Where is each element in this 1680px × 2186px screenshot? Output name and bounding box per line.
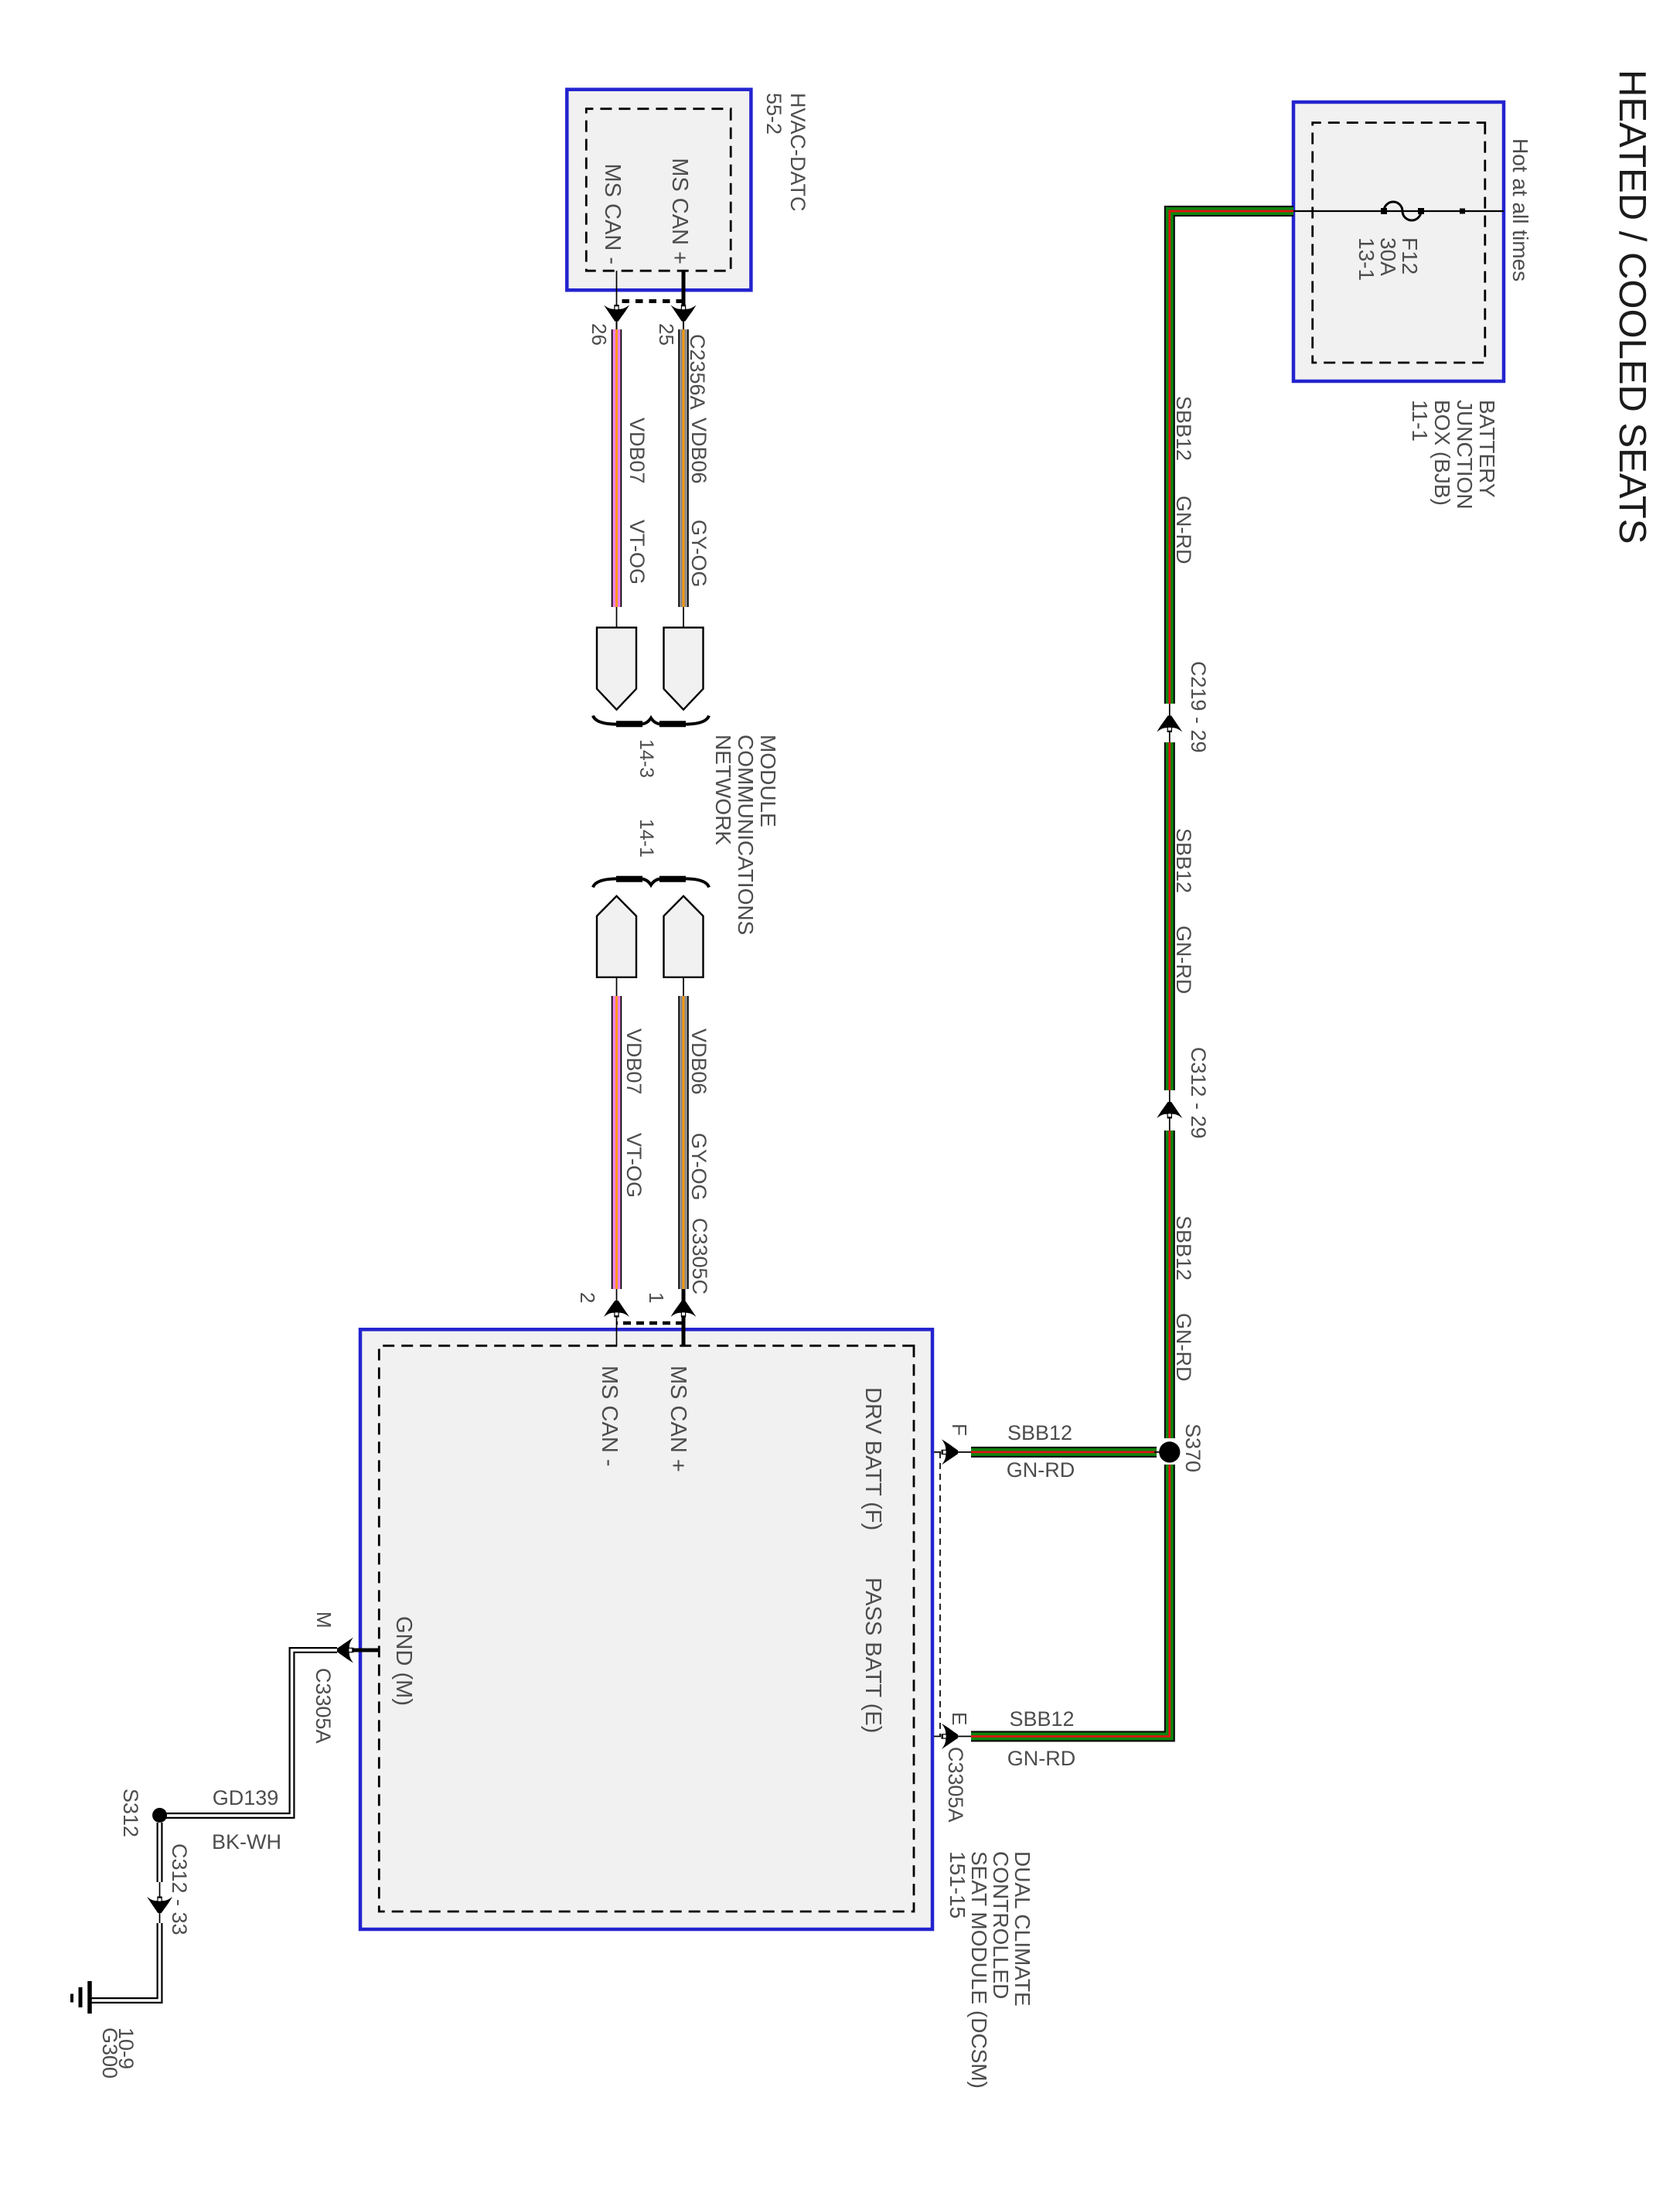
svg-text:C312 - 29: C312 - 29	[1187, 1047, 1210, 1139]
off-page connector VDB06 right	[664, 628, 704, 710]
label C3305C	[688, 1218, 711, 1294]
svg-text:M: M	[312, 1611, 336, 1628]
wire pin 1 stub DCSM	[682, 1317, 686, 1345]
label C3305A at pin M	[312, 1668, 335, 1744]
svg-text:VDB06: VDB06	[687, 418, 711, 484]
label MODULE COMMUNICATIONS NETWORK	[711, 735, 780, 935]
wire VDB06 GY-OG segment 2	[683, 977, 684, 1302]
wire thin link at connector C219	[1169, 704, 1171, 742]
connector C312 - 33 arrow	[147, 1897, 172, 1914]
label GD139	[213, 1786, 279, 1809]
wire VDB06 GY-OG segment 1	[678, 329, 689, 628]
label 14-1	[636, 819, 657, 858]
svg-text:F: F	[948, 1424, 971, 1436]
svg-text:C3305C: C3305C	[688, 1218, 711, 1294]
label Hot at all times	[1508, 138, 1532, 281]
module DCSM outline	[360, 1329, 932, 1929]
fuse F12 30A element	[1381, 202, 1424, 220]
svg-text:COMMUNICATIONS: COMMUNICATIONS	[734, 735, 758, 935]
svg-text:S370: S370	[1181, 1424, 1205, 1472]
connector C312 inline arrow	[1157, 1102, 1182, 1119]
svg-text:GN-RD: GN-RD	[1007, 1747, 1076, 1770]
label SBB12 segment 1	[1172, 396, 1195, 461]
pin 1 arrow DCSM	[671, 1301, 697, 1318]
svg-text:S312: S312	[119, 1789, 142, 1837]
pin 26 arrow	[604, 305, 629, 331]
svg-text:MS CAN -: MS CAN -	[600, 164, 625, 265]
label GN-RD segment 3	[1172, 1313, 1195, 1382]
label C312 - 29	[1187, 1047, 1210, 1139]
wire pin 25 stub HVAC	[682, 271, 686, 305]
svg-text:BK-WH: BK-WH	[212, 1830, 281, 1853]
label C219 - 29	[1187, 661, 1210, 753]
svg-text:GND (M): GND (M)	[391, 1616, 416, 1706]
wire BK-WH from C312 to G300	[91, 1923, 160, 2000]
pin 2 arrow DCSM	[604, 1301, 629, 1318]
svg-text:30A: 30A	[1376, 237, 1400, 276]
label C312 - 33	[168, 1843, 191, 1935]
svg-text:C3305A: C3305A	[944, 1747, 967, 1823]
title HEATED / COOLED SEATS	[1611, 70, 1653, 544]
pin 25 number	[655, 323, 678, 346]
pin F arrow into DCSM	[942, 1439, 959, 1465]
splice S370	[1154, 1441, 1180, 1462]
off-page connector VDB07 left	[597, 896, 636, 977]
label VDB07 segment 1	[625, 418, 649, 484]
svg-text:C2356A: C2356A	[686, 334, 709, 410]
label GY-OG segment 1	[687, 520, 711, 588]
brace left of network gap	[593, 716, 709, 725]
connector C3305A dashed span F to E	[939, 1452, 941, 1737]
svg-text:25: 25	[655, 323, 678, 346]
svg-text:2: 2	[576, 1292, 599, 1303]
connector C3305C dashed bracket	[617, 1321, 684, 1325]
label SBB12 segment 2	[1172, 828, 1195, 893]
wire pin 2 stub DCSM	[616, 1317, 618, 1345]
wire pin F stub link	[914, 1451, 971, 1453]
connector C2356A dashed bracket	[617, 299, 684, 303]
svg-text:CONTROLLED: CONTROLLED	[989, 1851, 1013, 1999]
battery junction box BJB outline	[1293, 102, 1504, 381]
brace right of network gap	[593, 878, 709, 887]
svg-text:SBB12: SBB12	[1172, 828, 1195, 893]
label F12 30A 13-1	[1355, 237, 1422, 281]
ground G300 symbol	[72, 1981, 90, 2014]
wire thin link at connector C312	[1169, 1090, 1171, 1131]
label VDB06 segment 2	[687, 1028, 711, 1095]
label GN-RD segment 2	[1172, 926, 1195, 994]
wire fuse feed line inside BJB	[1293, 210, 1504, 212]
wire GD139 BK-WH from M to S312	[160, 1650, 338, 1816]
svg-text:1: 1	[645, 1292, 668, 1303]
pin 1 number	[645, 1292, 668, 1303]
label BATTERY JUNCTION BOX (BJB) 11-1	[1408, 400, 1499, 510]
label MS CAN - inside HVAC	[600, 164, 625, 265]
wire pin E stub link	[914, 1736, 971, 1738]
svg-text:GN-RD: GN-RD	[1172, 1313, 1195, 1382]
svg-text:F12: F12	[1398, 237, 1422, 275]
pin 25 arrow	[671, 305, 697, 331]
HVAC-DATC inner dashed boundary	[586, 109, 731, 271]
off-page connector VDB07 right	[597, 628, 636, 710]
pin E letter	[948, 1712, 971, 1725]
svg-text:MS CAN -: MS CAN -	[597, 1366, 622, 1467]
label VT-OG segment 2	[622, 1133, 646, 1198]
svg-text:11-1: 11-1	[1408, 400, 1432, 442]
wire pin 26 stub HVAC	[616, 271, 618, 305]
svg-text:DRV BATT (F): DRV BATT (F)	[860, 1387, 885, 1530]
pin E arrow into DCSM	[942, 1724, 959, 1749]
svg-text:BATTERY: BATTERY	[1475, 400, 1499, 498]
label HVAC-DATC 55-2	[762, 93, 809, 212]
HVAC-DATC box outline	[567, 90, 751, 291]
svg-text:PASS BATT (E): PASS BATT (E)	[860, 1577, 885, 1733]
svg-text:C3305A: C3305A	[312, 1668, 335, 1744]
label SBB12 on E drop	[1009, 1707, 1074, 1731]
svg-text:14-3: 14-3	[636, 739, 657, 778]
label C3305A at pin E	[944, 1747, 967, 1823]
svg-text:26: 26	[588, 323, 611, 346]
svg-text:BOX (BJB): BOX (BJB)	[1430, 400, 1454, 506]
svg-text:Hot at all times: Hot at all times	[1508, 138, 1532, 281]
off-page connector VDB06 left	[664, 896, 704, 977]
label VDB06 segment 1	[687, 418, 711, 484]
wire SBB12 GN-RD main run from BJB	[971, 211, 1293, 1737]
svg-text:DUAL CLIMATE: DUAL CLIMATE	[1010, 1851, 1034, 2007]
pin 26 number	[588, 323, 611, 346]
svg-text:VDB06: VDB06	[687, 1028, 711, 1095]
node bus junction square in BJB	[1460, 209, 1465, 214]
wire pin M stub DCSM	[352, 1649, 379, 1652]
label GN-RD segment 1	[1172, 496, 1195, 564]
label MS CAN + inside DCSM	[666, 1366, 690, 1472]
svg-text:NETWORK: NETWORK	[711, 735, 735, 845]
svg-text:GN-RD: GN-RD	[1007, 1458, 1075, 1482]
svg-text:SBB12: SBB12	[1172, 1216, 1195, 1281]
label SBB12 segment 3	[1172, 1216, 1195, 1281]
svg-text:C219 - 29: C219 - 29	[1187, 661, 1210, 753]
svg-text:GY-OG: GY-OG	[687, 520, 711, 588]
svg-text:C312 - 33: C312 - 33	[168, 1843, 191, 1935]
svg-text:13-1: 13-1	[1355, 237, 1378, 281]
label BK-WH	[212, 1830, 281, 1853]
label GN-RD on F drop	[1007, 1458, 1075, 1482]
svg-text:JUNCTION: JUNCTION	[1453, 400, 1477, 510]
label S370	[1181, 1424, 1205, 1472]
svg-text:VDB07: VDB07	[622, 1028, 646, 1095]
label VT-OG segment 1	[625, 520, 649, 585]
label GND (M) inside DCSM	[391, 1616, 416, 1706]
pin M letter	[312, 1611, 336, 1628]
svg-text:GD139: GD139	[213, 1786, 279, 1809]
svg-text:GN-RD: GN-RD	[1172, 926, 1195, 994]
label DRV BATT (F)	[860, 1387, 885, 1530]
label G300 10-9	[98, 2027, 138, 2079]
svg-text:MS CAN +: MS CAN +	[667, 158, 692, 264]
svg-text:VDB07: VDB07	[625, 418, 649, 484]
label GN-RD on E drop	[1007, 1747, 1076, 1770]
svg-text:55-2: 55-2	[762, 93, 785, 135]
wire thin link at connector C312-33	[159, 1882, 161, 1923]
svg-text:GN-RD: GN-RD	[1172, 496, 1195, 564]
label PASS BATT (E)	[860, 1577, 885, 1733]
splice S312	[152, 1808, 167, 1823]
svg-text:HEATED / COOLED SEATS: HEATED / COOLED SEATS	[1611, 70, 1653, 544]
pin M arrow out of DCSM	[337, 1638, 354, 1663]
svg-text:151-15: 151-15	[946, 1851, 969, 1918]
pin F letter	[948, 1424, 971, 1436]
label S312	[119, 1789, 142, 1837]
module DCSM inner dashed boundary	[379, 1345, 914, 1911]
svg-text:SBB12: SBB12	[1172, 396, 1195, 461]
label VDB07 segment 2	[622, 1028, 646, 1095]
svg-text:SEAT MODULE (DCSM): SEAT MODULE (DCSM)	[967, 1851, 991, 2089]
label GY-OG segment 2	[687, 1133, 711, 1201]
label DUAL CLIMATE CONTROLLED SEAT MODULE (DCSM) 151-15	[946, 1851, 1034, 2089]
label MS CAN - inside DCSM	[597, 1366, 622, 1467]
svg-text:14-1: 14-1	[636, 819, 657, 858]
svg-text:MODULE: MODULE	[756, 735, 780, 827]
wire VDB07 VT-OG segment 2	[616, 977, 618, 1302]
pin 2 number	[576, 1292, 599, 1303]
svg-text:G300: G300	[98, 2027, 121, 2079]
svg-text:MS CAN +: MS CAN +	[666, 1366, 690, 1472]
battery junction box BJB inner dashed boundary	[1313, 123, 1485, 363]
wire VDB07 VT-OG segment 1	[612, 329, 622, 628]
svg-text:SBB12: SBB12	[1009, 1707, 1074, 1731]
wire BK-WH from S312 to C312	[157, 1823, 163, 1882]
label C2356A	[686, 334, 709, 410]
svg-text:VT-OG: VT-OG	[625, 520, 649, 585]
svg-text:HVAC-DATC: HVAC-DATC	[786, 93, 809, 212]
svg-text:VT-OG: VT-OG	[622, 1133, 646, 1198]
svg-text:GY-OG: GY-OG	[687, 1133, 711, 1201]
svg-text:E: E	[948, 1712, 971, 1725]
label MS CAN + inside HVAC	[667, 158, 692, 264]
connector C219 inline arrow	[1157, 716, 1182, 733]
svg-text:SBB12: SBB12	[1007, 1421, 1072, 1444]
label SBB12 on F drop	[1007, 1421, 1072, 1444]
label 14-3	[636, 739, 657, 778]
